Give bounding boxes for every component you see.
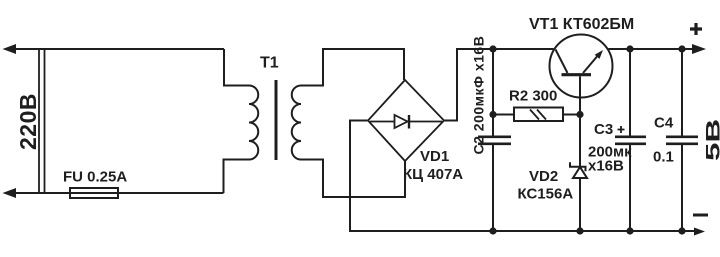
VD2 triangle <box>573 167 587 178</box>
wire top-left AC line <box>12 48 224 50</box>
node C3 top <box>626 45 633 52</box>
C3 plus mark <box>618 126 625 133</box>
resistor R2 leads <box>493 114 514 116</box>
VD1 diode triangle <box>395 115 408 128</box>
C2 plates <box>478 136 511 139</box>
wire secondary top lead to bridge top <box>301 49 404 86</box>
svg-text:C3: C3 <box>594 121 613 138</box>
terminal arrow AC top <box>3 44 17 54</box>
VT1 emitter line <box>583 53 600 73</box>
wire top rail from transistor emitter to plus terminal <box>609 48 698 50</box>
svg-text:0.1: 0.1 <box>653 149 674 166</box>
wire primary top lead <box>224 49 249 86</box>
svg-text:VD1: VD1 <box>420 148 449 165</box>
wire VD2 anode to bottom rail <box>579 178 581 231</box>
node VD2 bottom <box>576 227 583 234</box>
wire bottom-left AC line <box>12 192 224 194</box>
svg-text:VD2: VD2 <box>529 168 558 185</box>
svg-text:Т1: Т1 <box>260 55 279 72</box>
svg-text:220В: 220В <box>15 93 41 150</box>
svg-text:C4: C4 <box>654 115 674 132</box>
node R2 left <box>489 111 496 118</box>
svg-text:FU 0.25A: FU 0.25A <box>63 169 127 186</box>
svg-text:КЦ 407А: КЦ 407А <box>403 166 463 183</box>
bridge rectifier VD1 diamond <box>368 80 444 161</box>
transformer core <box>275 80 278 160</box>
VD1 internal diode line <box>370 121 442 123</box>
terminal arrow output minus <box>694 228 705 236</box>
VT1 emitter arrow <box>595 50 603 59</box>
wire bridge plus output to top rail <box>444 49 554 121</box>
terminal arrow AC bottom <box>3 188 17 198</box>
C3 plates <box>615 136 646 139</box>
capacitor C3 leads <box>629 49 631 136</box>
zener diode VD2 cathode bar <box>570 162 586 171</box>
svg-text:VT1 КТ602БМ: VT1 КТ602БМ <box>529 16 634 33</box>
svg-text:5В: 5В <box>702 119 720 161</box>
transistor VT1 circle <box>550 35 613 98</box>
VD1 diode cathode bar <box>408 115 410 129</box>
wire primary bottom lead <box>224 160 250 194</box>
wire VT1 base lead down <box>579 76 581 166</box>
wire bridge minus output to bottom rail <box>350 121 697 232</box>
node C4 bottom <box>678 227 685 234</box>
R2 power-rating slashes <box>530 110 539 120</box>
node C2 bottom <box>489 227 496 234</box>
svg-text:С2 200мкФ х16В: С2 200мкФ х16В <box>471 36 487 155</box>
VT1 base bar <box>562 73 592 76</box>
transformer T1 primary winding <box>249 86 258 160</box>
node C3 bottom <box>626 227 633 234</box>
svg-text:х16В: х16В <box>588 158 624 175</box>
mains plug double line <box>38 49 40 193</box>
terminal arrow output plus <box>692 44 706 54</box>
capacitor C2 leads <box>492 49 494 136</box>
svg-text:R2 300: R2 300 <box>509 88 557 105</box>
svg-text:КС156А: КС156А <box>518 186 574 203</box>
node C4 top <box>678 45 685 52</box>
transformer T1 secondary winding <box>292 86 301 160</box>
fuse FU <box>70 188 118 198</box>
node C2 top <box>489 45 496 52</box>
output minus symbol <box>693 214 708 217</box>
VT1 collector line <box>556 50 568 74</box>
C4 plates <box>666 136 698 139</box>
capacitor C4 leads <box>681 49 683 136</box>
output plus symbol <box>690 23 702 35</box>
wire secondary bottom lead to bridge bottom <box>301 160 405 198</box>
resistor R2 body <box>514 108 563 122</box>
node R2 right / base <box>576 111 583 118</box>
